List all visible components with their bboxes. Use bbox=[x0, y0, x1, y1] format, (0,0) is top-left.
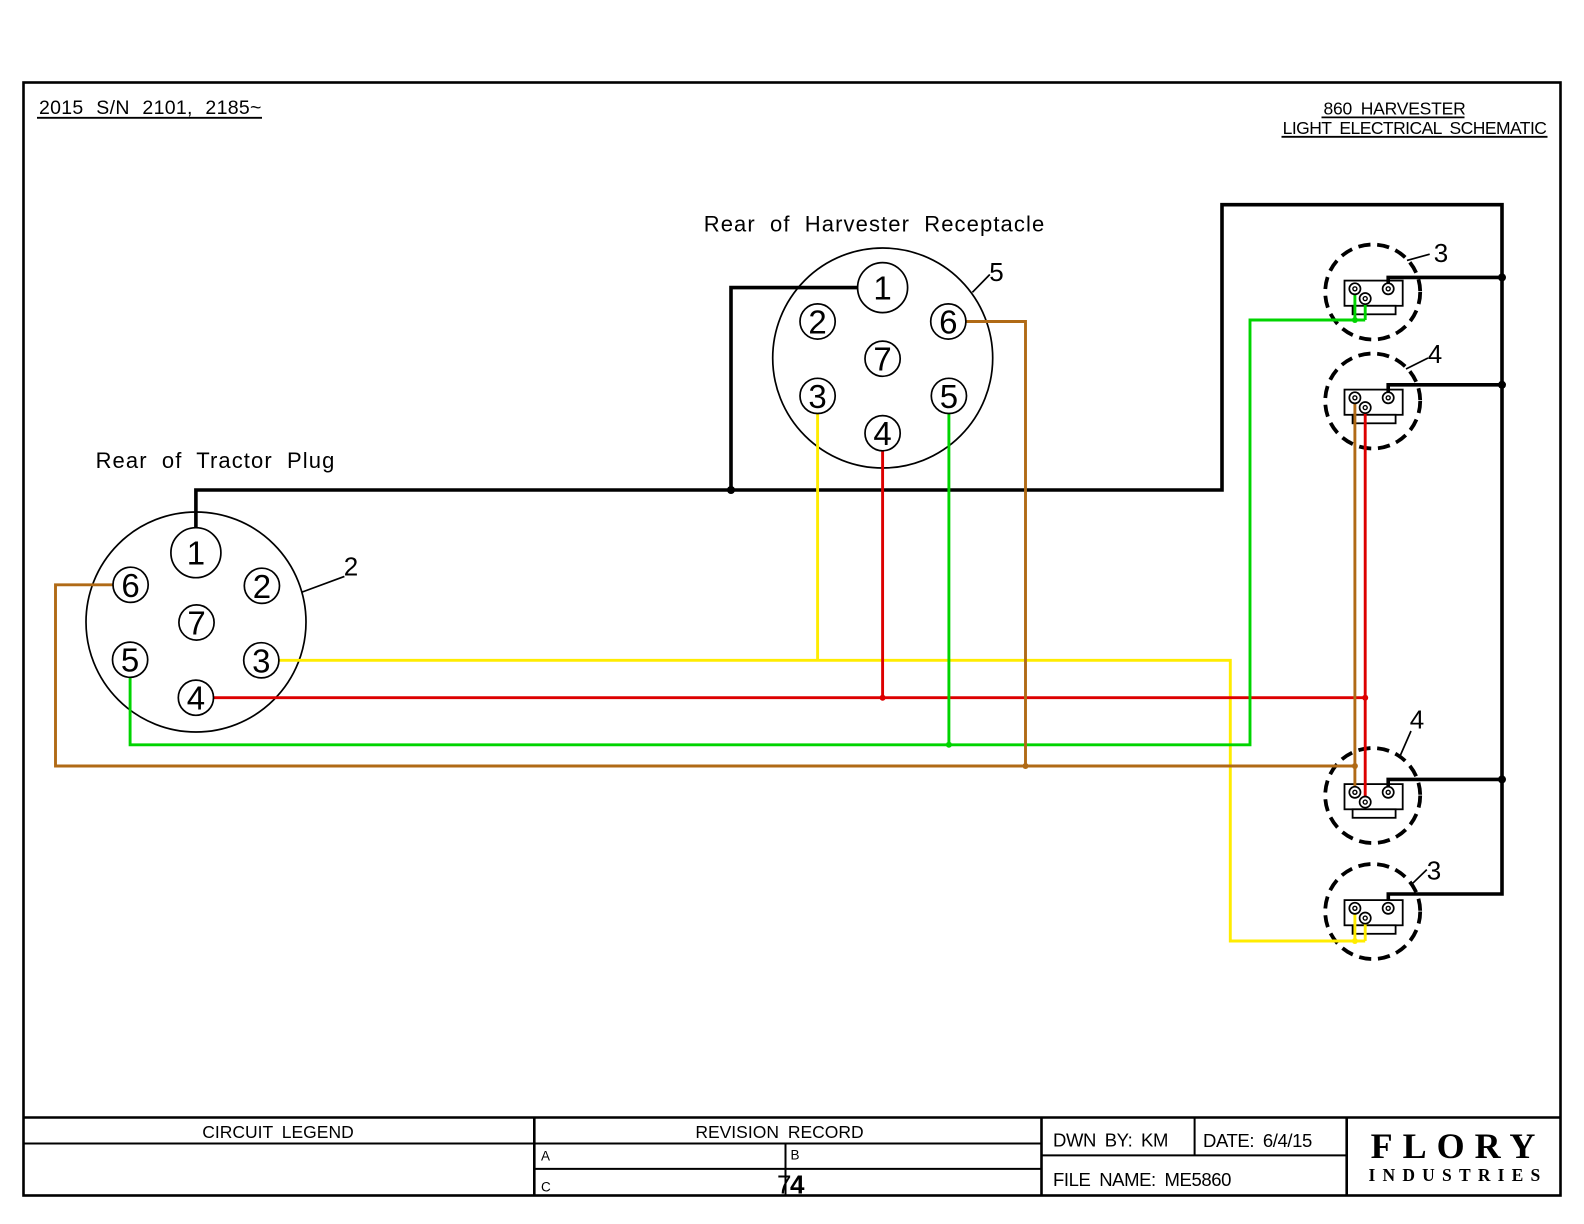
svg-text:A: A bbox=[541, 1148, 550, 1163]
svg-text:2: 2 bbox=[344, 552, 358, 582]
svg-text:5: 5 bbox=[989, 257, 1003, 287]
svg-text:2: 2 bbox=[253, 568, 271, 605]
svg-text:6: 6 bbox=[121, 567, 139, 604]
svg-text:FLORY: FLORY bbox=[1371, 1126, 1546, 1166]
svg-text:C: C bbox=[541, 1179, 551, 1194]
svg-text:4: 4 bbox=[873, 415, 891, 452]
svg-text:3: 3 bbox=[1427, 856, 1441, 886]
svg-text:6: 6 bbox=[939, 304, 957, 341]
svg-text:4: 4 bbox=[1410, 705, 1424, 735]
svg-text:2: 2 bbox=[808, 304, 826, 341]
svg-text:7: 7 bbox=[873, 341, 891, 378]
svg-text:FILE NAME: ME5860: FILE NAME: ME5860 bbox=[1053, 1169, 1231, 1190]
svg-text:INDUSTRIES: INDUSTRIES bbox=[1369, 1165, 1548, 1185]
svg-text:5: 5 bbox=[121, 642, 139, 679]
svg-text:74: 74 bbox=[777, 1170, 805, 1200]
svg-text:DATE: 6/4/15: DATE: 6/4/15 bbox=[1203, 1130, 1312, 1151]
svg-text:1: 1 bbox=[873, 270, 891, 307]
svg-text:3: 3 bbox=[808, 378, 826, 415]
svg-text:DWN BY: KM: DWN BY: KM bbox=[1053, 1130, 1168, 1151]
svg-text:1: 1 bbox=[187, 535, 205, 572]
svg-text:3: 3 bbox=[1434, 238, 1448, 268]
svg-text:2015 S/N 2101, 2185~: 2015 S/N 2101, 2185~ bbox=[39, 97, 262, 119]
svg-text:4: 4 bbox=[187, 680, 205, 717]
svg-text:7: 7 bbox=[187, 605, 205, 642]
svg-text:3: 3 bbox=[252, 642, 270, 679]
svg-text:CIRCUIT LEGEND: CIRCUIT LEGEND bbox=[202, 1122, 353, 1142]
svg-text:4: 4 bbox=[1428, 339, 1442, 369]
svg-text:860 HARVESTER: 860 HARVESTER bbox=[1323, 99, 1465, 119]
svg-text:B: B bbox=[791, 1148, 800, 1163]
svg-text:REVISION RECORD: REVISION RECORD bbox=[695, 1122, 863, 1142]
svg-text:Rear of Tractor Plug: Rear of Tractor Plug bbox=[96, 448, 336, 473]
svg-text:5: 5 bbox=[940, 378, 958, 415]
svg-text:LIGHT ELECTRICAL SCHEMATIC: LIGHT ELECTRICAL SCHEMATIC bbox=[1283, 118, 1547, 138]
svg-text:Rear of Harvester Receptacle: Rear of Harvester Receptacle bbox=[704, 212, 1046, 237]
